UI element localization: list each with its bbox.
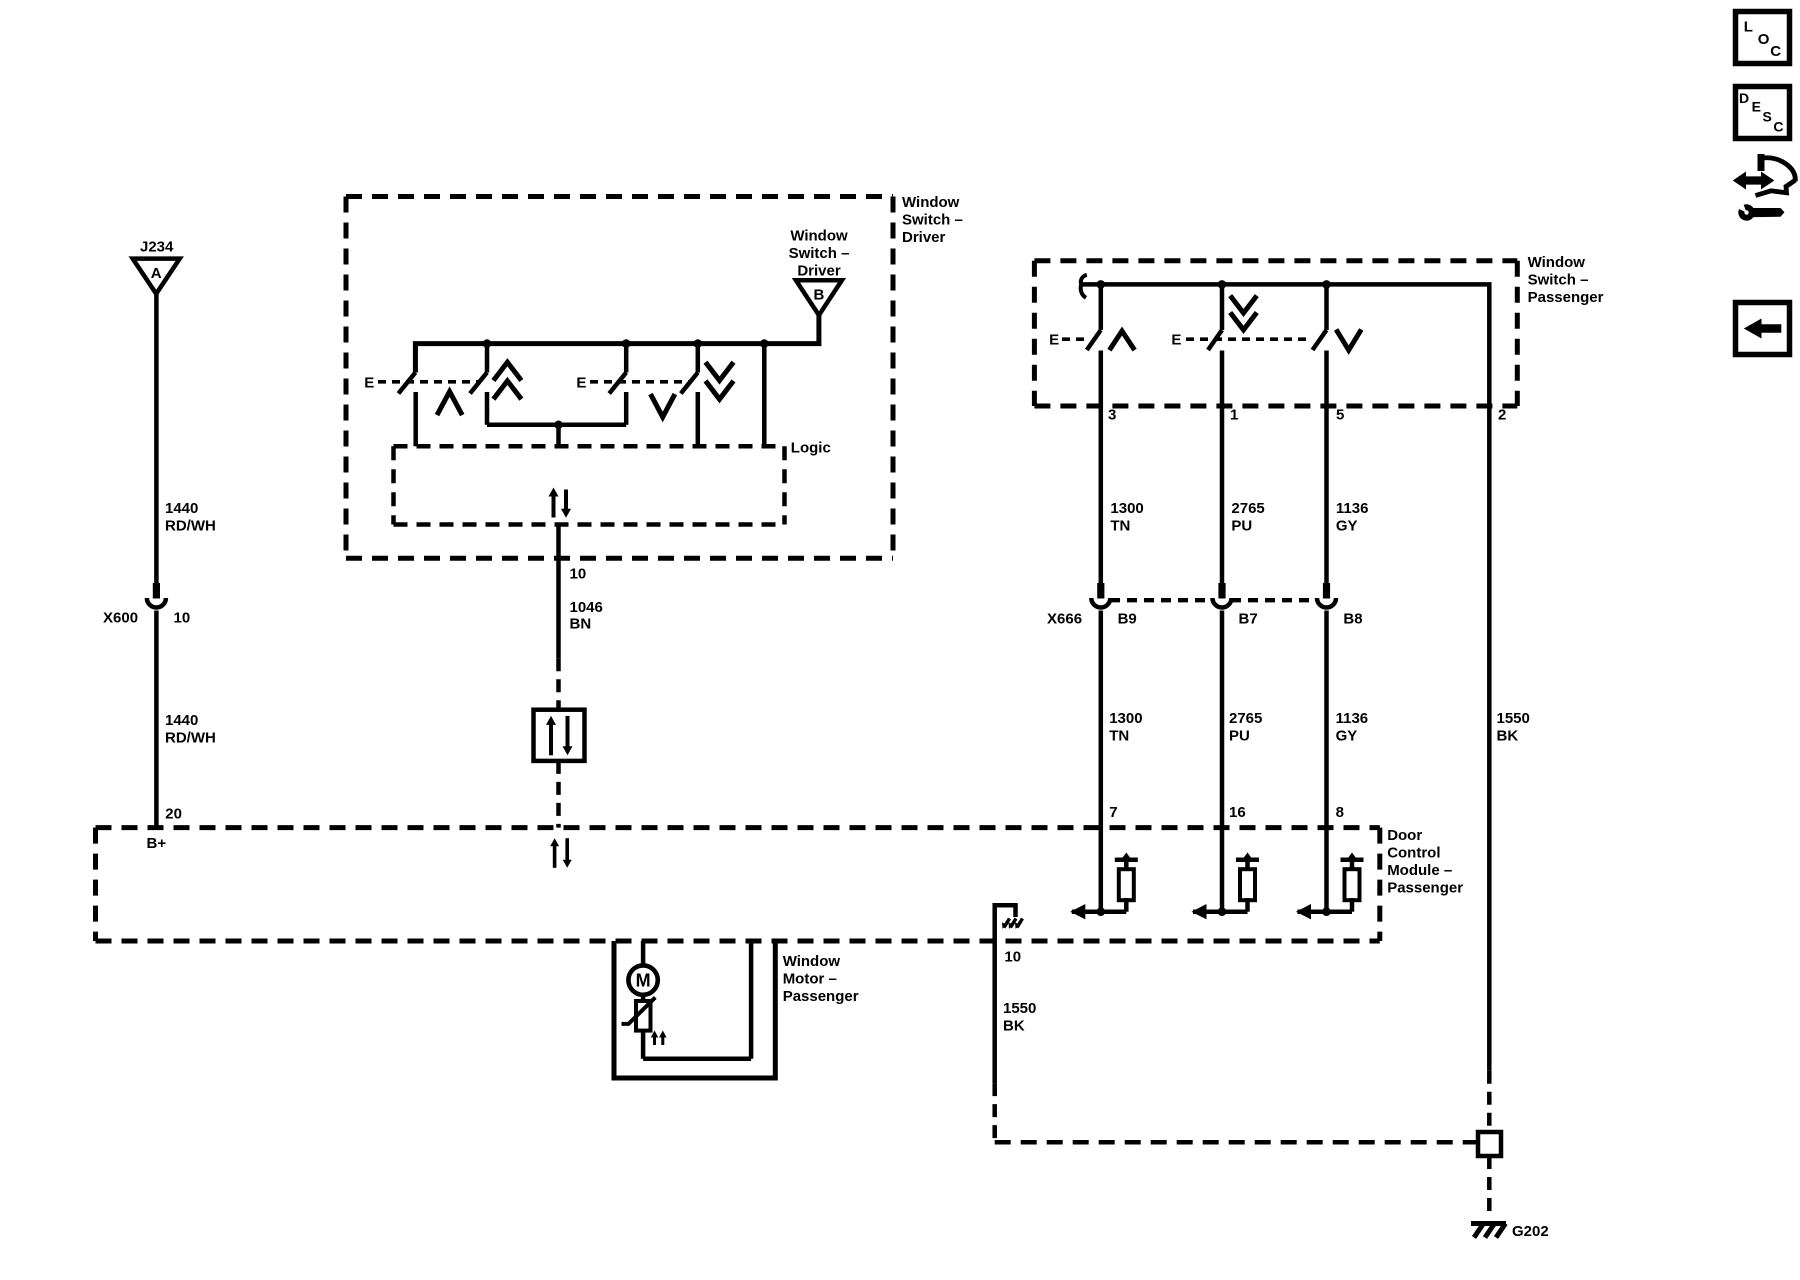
svg-text:Window: Window bbox=[790, 227, 848, 244]
svg-text:Window: Window bbox=[902, 194, 960, 211]
svg-text:TN: TN bbox=[1109, 728, 1129, 745]
svg-text:Module –: Module – bbox=[1387, 862, 1452, 879]
svg-text:B9: B9 bbox=[1118, 611, 1137, 628]
svg-text:5: 5 bbox=[1336, 407, 1344, 424]
svg-text:Switch –: Switch – bbox=[789, 245, 850, 262]
svg-text:E: E bbox=[1752, 99, 1761, 115]
svg-text:1: 1 bbox=[1230, 407, 1238, 424]
svg-text:J234: J234 bbox=[140, 239, 174, 256]
svg-text:1300: 1300 bbox=[1109, 710, 1142, 727]
svg-text:2765: 2765 bbox=[1231, 500, 1264, 517]
svg-text:B+: B+ bbox=[147, 835, 167, 852]
svg-text:C: C bbox=[1770, 43, 1781, 60]
svg-text:1440: 1440 bbox=[165, 712, 198, 729]
svg-text:D: D bbox=[1739, 90, 1749, 106]
svg-text:X600: X600 bbox=[103, 610, 138, 627]
svg-text:Passenger: Passenger bbox=[1528, 289, 1604, 306]
svg-text:M: M bbox=[636, 971, 651, 991]
svg-text:BK: BK bbox=[1003, 1018, 1025, 1035]
svg-text:BK: BK bbox=[1497, 728, 1519, 745]
svg-text:BN: BN bbox=[570, 616, 592, 633]
svg-text:Window: Window bbox=[783, 953, 841, 970]
svg-text:B: B bbox=[813, 286, 824, 303]
svg-text:Control: Control bbox=[1387, 845, 1440, 862]
svg-text:7: 7 bbox=[1109, 804, 1117, 821]
svg-text:A: A bbox=[151, 265, 162, 282]
svg-text:B8: B8 bbox=[1343, 611, 1362, 628]
svg-text:1300: 1300 bbox=[1110, 500, 1143, 517]
svg-text:C: C bbox=[1773, 119, 1783, 135]
svg-text:1550: 1550 bbox=[1003, 1000, 1036, 1017]
svg-text:Motor –: Motor – bbox=[783, 971, 837, 988]
svg-text:Passenger: Passenger bbox=[783, 988, 859, 1005]
svg-text:RD/WH: RD/WH bbox=[165, 730, 216, 747]
svg-text:B7: B7 bbox=[1239, 611, 1258, 628]
svg-text:Driver: Driver bbox=[902, 229, 946, 246]
svg-text:S: S bbox=[1763, 109, 1772, 125]
svg-text:X666: X666 bbox=[1047, 611, 1082, 628]
svg-text:10: 10 bbox=[1004, 948, 1021, 965]
svg-text:PU: PU bbox=[1229, 728, 1250, 745]
svg-text:1550: 1550 bbox=[1497, 710, 1530, 727]
svg-text:Window: Window bbox=[1528, 254, 1586, 271]
svg-text:3: 3 bbox=[1108, 407, 1116, 424]
svg-text:16: 16 bbox=[1229, 804, 1246, 821]
svg-text:Switch –: Switch – bbox=[902, 212, 963, 229]
svg-text:2765: 2765 bbox=[1229, 710, 1262, 727]
svg-text:G202: G202 bbox=[1512, 1223, 1549, 1240]
svg-text:Switch –: Switch – bbox=[1528, 272, 1589, 289]
svg-text:GY: GY bbox=[1336, 518, 1358, 535]
svg-text:E: E bbox=[1049, 332, 1059, 349]
svg-text:Door: Door bbox=[1387, 827, 1422, 844]
svg-text:E: E bbox=[364, 374, 374, 391]
svg-text:2: 2 bbox=[1498, 407, 1506, 424]
svg-text:20: 20 bbox=[165, 806, 182, 823]
svg-text:E: E bbox=[1171, 332, 1181, 349]
svg-text:O: O bbox=[1758, 31, 1770, 48]
svg-text:8: 8 bbox=[1336, 804, 1344, 821]
svg-text:1136: 1136 bbox=[1336, 710, 1369, 727]
svg-text:10: 10 bbox=[174, 610, 191, 627]
svg-text:Driver: Driver bbox=[797, 262, 841, 279]
svg-text:10: 10 bbox=[570, 566, 587, 583]
svg-text:E: E bbox=[576, 374, 586, 391]
svg-text:TN: TN bbox=[1110, 518, 1130, 535]
svg-text:Passenger: Passenger bbox=[1387, 880, 1463, 897]
svg-text:PU: PU bbox=[1231, 518, 1252, 535]
svg-text:RD/WH: RD/WH bbox=[165, 518, 216, 535]
svg-text:L: L bbox=[1744, 18, 1753, 35]
svg-text:1440: 1440 bbox=[165, 500, 198, 517]
svg-text:Logic: Logic bbox=[791, 440, 831, 457]
svg-text:GY: GY bbox=[1336, 728, 1358, 745]
svg-text:1046: 1046 bbox=[570, 599, 603, 616]
svg-text:1136: 1136 bbox=[1336, 500, 1369, 517]
